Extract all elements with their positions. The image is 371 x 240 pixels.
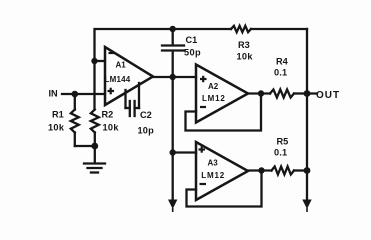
arrow terminal (right rail to -V bus) — [302, 200, 311, 213]
node A3 feedback tap — [258, 167, 264, 173]
svg-text:50p: 50p — [184, 48, 201, 58]
wire A3 feedback loop — [187, 171, 262, 207]
svg-text:IN: IN — [49, 89, 59, 99]
wire A2 output — [248, 92, 270, 94]
node feedback / R2 junction — [91, 58, 97, 64]
wire R5 to output rail — [294, 169, 307, 171]
node A2 feedback tap — [258, 90, 264, 96]
resistor R3 10k — [231, 26, 253, 62]
svg-text:A3: A3 — [208, 159, 219, 168]
node R1 tap — [72, 91, 79, 98]
svg-text:A1: A1 — [116, 61, 127, 70]
op-amp A1 LM144 — [105, 47, 154, 105]
op-amp A2 LM12 — [196, 65, 248, 123]
wire top feedback rail — [95, 29, 308, 61]
wire A3 non-inverting input — [173, 151, 196, 153]
svg-text:LM144: LM144 — [105, 75, 131, 84]
svg-text:R4: R4 — [276, 57, 289, 67]
node A3 input tap — [170, 149, 176, 155]
wire A1 inverting input stub — [95, 60, 106, 62]
svg-text:0.1: 0.1 — [274, 148, 287, 158]
terminal IN — [49, 89, 59, 99]
svg-text:R5: R5 — [277, 137, 289, 147]
capacitor C2 10p (A1 compensation) — [126, 83, 155, 136]
wire A3 output — [248, 169, 272, 171]
node A1 output / C1 / A3 branch — [170, 74, 176, 80]
terminal OUT — [307, 90, 340, 101]
node C1 top on rail — [170, 26, 176, 32]
ground — [84, 146, 105, 173]
svg-text:0.1: 0.1 — [274, 68, 287, 78]
wire A1 output node down to A3 — [172, 77, 174, 201]
svg-text:10k: 10k — [237, 52, 254, 62]
resistor R5 0.1 — [272, 137, 295, 175]
wire A2 feedback loop — [186, 94, 262, 131]
arrow terminal (left branch to -V bus) — [168, 200, 177, 213]
svg-text:LM12: LM12 — [201, 171, 225, 180]
node OUT — [304, 90, 311, 97]
op-amp A3 LM12 — [196, 142, 248, 200]
svg-text:R1: R1 — [52, 110, 64, 120]
wire IN to A1 non-inverting input — [62, 93, 105, 95]
wire R4 to output rail — [294, 92, 307, 94]
wire inverting node down to R2 (crossover, no connection) — [93, 61, 95, 109]
node ground junction — [91, 143, 98, 150]
svg-text:C1: C1 — [186, 35, 198, 45]
svg-text:OUT: OUT — [316, 90, 340, 101]
resistor R4 0.1 — [270, 57, 294, 98]
resistor R2 10k — [91, 110, 120, 147]
svg-text:R2: R2 — [102, 110, 114, 120]
svg-text:10k: 10k — [103, 123, 120, 133]
capacitor C1 50p — [162, 29, 201, 77]
node R5 / right rail junction — [304, 167, 311, 174]
svg-text:10p: 10p — [138, 126, 155, 136]
resistor R1 10k — [48, 94, 79, 146]
wire A1 output to A2 non-inverting input — [153, 76, 196, 78]
svg-text:LM12: LM12 — [202, 94, 226, 103]
svg-text:10k: 10k — [48, 123, 65, 133]
svg-text:C2: C2 — [140, 110, 152, 120]
wire right rail — [306, 29, 308, 201]
wire R1 bottom to ground node — [75, 145, 95, 147]
svg-text:R3: R3 — [238, 40, 250, 50]
svg-text:A2: A2 — [208, 82, 219, 91]
